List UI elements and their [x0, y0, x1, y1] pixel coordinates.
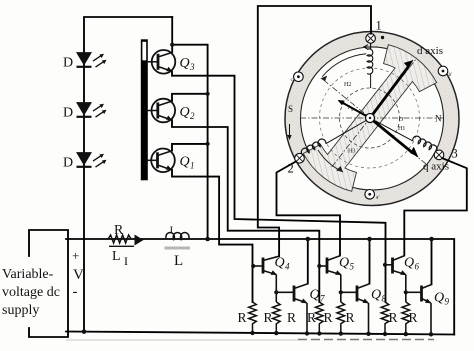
svg-text:Q: Q: [180, 56, 190, 71]
svg-text:H3: H3: [348, 149, 355, 155]
svg-text:V: V: [73, 267, 84, 283]
svg-text:L: L: [174, 253, 183, 269]
svg-text:R: R: [409, 310, 418, 325]
svg-text:R: R: [346, 310, 355, 325]
svg-text:Q: Q: [180, 155, 190, 170]
svg-text:Q: Q: [339, 256, 349, 271]
svg-text:H2: H2: [344, 82, 351, 88]
svg-text:D: D: [63, 56, 73, 71]
svg-text:Variable-: Variable-: [2, 267, 54, 282]
svg-text:D: D: [63, 106, 73, 121]
svg-text:I: I: [124, 254, 128, 268]
svg-text:R: R: [389, 310, 398, 325]
svg-text:+: +: [72, 248, 79, 263]
svg-text:q axis: q axis: [423, 161, 449, 173]
svg-text:D: D: [63, 156, 73, 171]
svg-text:1: 1: [376, 19, 382, 33]
svg-text:R: R: [114, 223, 124, 238]
svg-text:R: R: [307, 310, 316, 325]
svg-text:7: 7: [320, 294, 325, 304]
svg-text:R: R: [238, 310, 247, 325]
svg-text:1: 1: [190, 161, 195, 171]
svg-text:H1: H1: [398, 126, 405, 132]
svg-text:R: R: [324, 310, 333, 325]
svg-text:L: L: [112, 249, 121, 264]
svg-text:2: 2: [190, 111, 195, 121]
svg-text:6: 6: [415, 262, 420, 272]
svg-text:I: I: [170, 225, 174, 237]
svg-text:Q: Q: [434, 291, 444, 306]
svg-text:supply: supply: [2, 303, 39, 318]
svg-text:R: R: [287, 310, 296, 325]
svg-text:b': b': [449, 72, 453, 78]
svg-text:a': a': [376, 195, 379, 201]
svg-text:-: -: [73, 284, 78, 300]
svg-text:8: 8: [382, 294, 387, 304]
svg-text:Q: Q: [371, 288, 381, 303]
svg-text:s: s: [351, 108, 353, 113]
svg-text:5: 5: [350, 262, 355, 272]
svg-text:S: S: [288, 104, 293, 114]
svg-text:voltage dc: voltage dc: [2, 285, 60, 300]
svg-text:Q: Q: [180, 105, 190, 120]
svg-text:O: O: [399, 117, 404, 123]
svg-text:R: R: [264, 310, 273, 325]
svg-text:Q: Q: [310, 288, 320, 303]
svg-text:Q: Q: [275, 256, 285, 271]
svg-text:i: i: [348, 104, 350, 111]
svg-text:4: 4: [285, 262, 290, 272]
svg-text:9: 9: [445, 297, 450, 307]
svg-text:3: 3: [189, 62, 195, 72]
svg-text:d axis: d axis: [417, 45, 443, 57]
svg-text:Q: Q: [404, 256, 414, 271]
svg-text:3: 3: [452, 147, 458, 161]
svg-text:N: N: [435, 114, 442, 124]
